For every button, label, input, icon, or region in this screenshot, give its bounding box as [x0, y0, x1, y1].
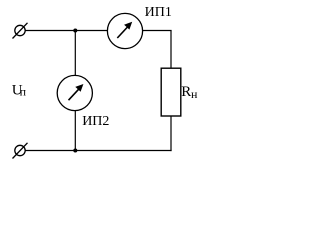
svg-text:ИП2: ИП2	[82, 114, 109, 129]
svg-text:н: н	[191, 87, 198, 101]
svg-text:п: п	[20, 85, 27, 99]
svg-text:R: R	[181, 84, 191, 100]
svg-text:ИП1: ИП1	[145, 5, 172, 20]
